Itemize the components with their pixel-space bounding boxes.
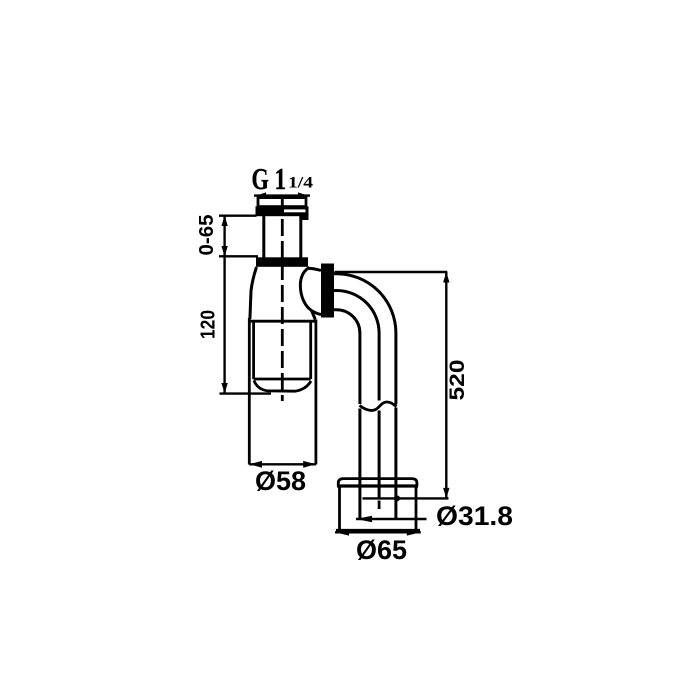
cup wall left (252, 321, 255, 379)
body nut black band (256, 257, 308, 267)
dimension line diameter 65 (335, 529, 421, 536)
elbow nut black band (321, 264, 334, 318)
flange bottom edge (336, 529, 420, 532)
elbow middle arc (334, 291, 379, 401)
dimension line diameter 31.8 (356, 516, 427, 522)
svg-text:Ø65: Ø65 (356, 535, 407, 565)
dimension line diameter 58 (249, 461, 316, 468)
tailpipe wall right lower (394, 408, 397, 520)
thread label G1 1/4 (252, 161, 314, 195)
svg-text:1/4: 1/4 (288, 175, 313, 192)
bottle cone right edge (308, 267, 310, 269)
elbow outer arc (334, 274, 396, 405)
dimension line 520 (443, 272, 449, 498)
extension line 0-65 bottom (219, 255, 258, 257)
svg-text:120: 120 (196, 310, 219, 339)
520 extension line bottom (363, 497, 449, 499)
nut stub (302, 216, 309, 220)
svg-text:1: 1 (275, 162, 287, 196)
bottle outer wall right (314, 320, 317, 465)
cup wall right (309, 321, 312, 379)
tailpipe middle line lower (378, 411, 381, 499)
tailpipe wall left lower (358, 409, 361, 520)
svg-text:Ø31.8: Ø31.8 (436, 501, 513, 531)
cup bottom edge (254, 378, 311, 381)
elbow inner arc (334, 310, 360, 404)
svg-text:G: G (252, 161, 269, 195)
G1 1/4 dimension line (254, 192, 310, 196)
flange washer bottom edge (337, 484, 418, 487)
cup top edge (248, 320, 316, 323)
pipe break squiggle (360, 402, 397, 411)
inlet pipe wall left (262, 216, 265, 258)
top collar outline (258, 198, 306, 207)
centerline dash in flange (378, 501, 381, 510)
extension line 120 bottom (220, 392, 272, 394)
flange body right wall (415, 487, 418, 532)
svg-text:520: 520 (445, 359, 469, 400)
outlet socket bulge (300, 268, 311, 311)
svg-text:0-65: 0-65 (195, 214, 218, 255)
bottle cone left edge (250, 267, 257, 319)
flange body left wall (338, 487, 341, 530)
junction dot (394, 495, 400, 501)
socket top lip (308, 268, 321, 270)
extension line 0-65 top (219, 214, 257, 216)
top nut black band (256, 206, 309, 216)
vertical centerline (dashed) (281, 197, 284, 401)
svg-text:Ø58: Ø58 (255, 466, 306, 496)
flange top washer (338, 479, 417, 487)
cup dome bottom (254, 381, 311, 392)
dimension line 0-65 / 120 (221, 216, 227, 394)
socket bottom lip (312, 311, 322, 315)
inlet pipe wall right (299, 216, 302, 258)
bottle right shoulder (312, 311, 316, 320)
520 extension line top (335, 271, 448, 273)
bottle outer wall left (248, 318, 251, 465)
